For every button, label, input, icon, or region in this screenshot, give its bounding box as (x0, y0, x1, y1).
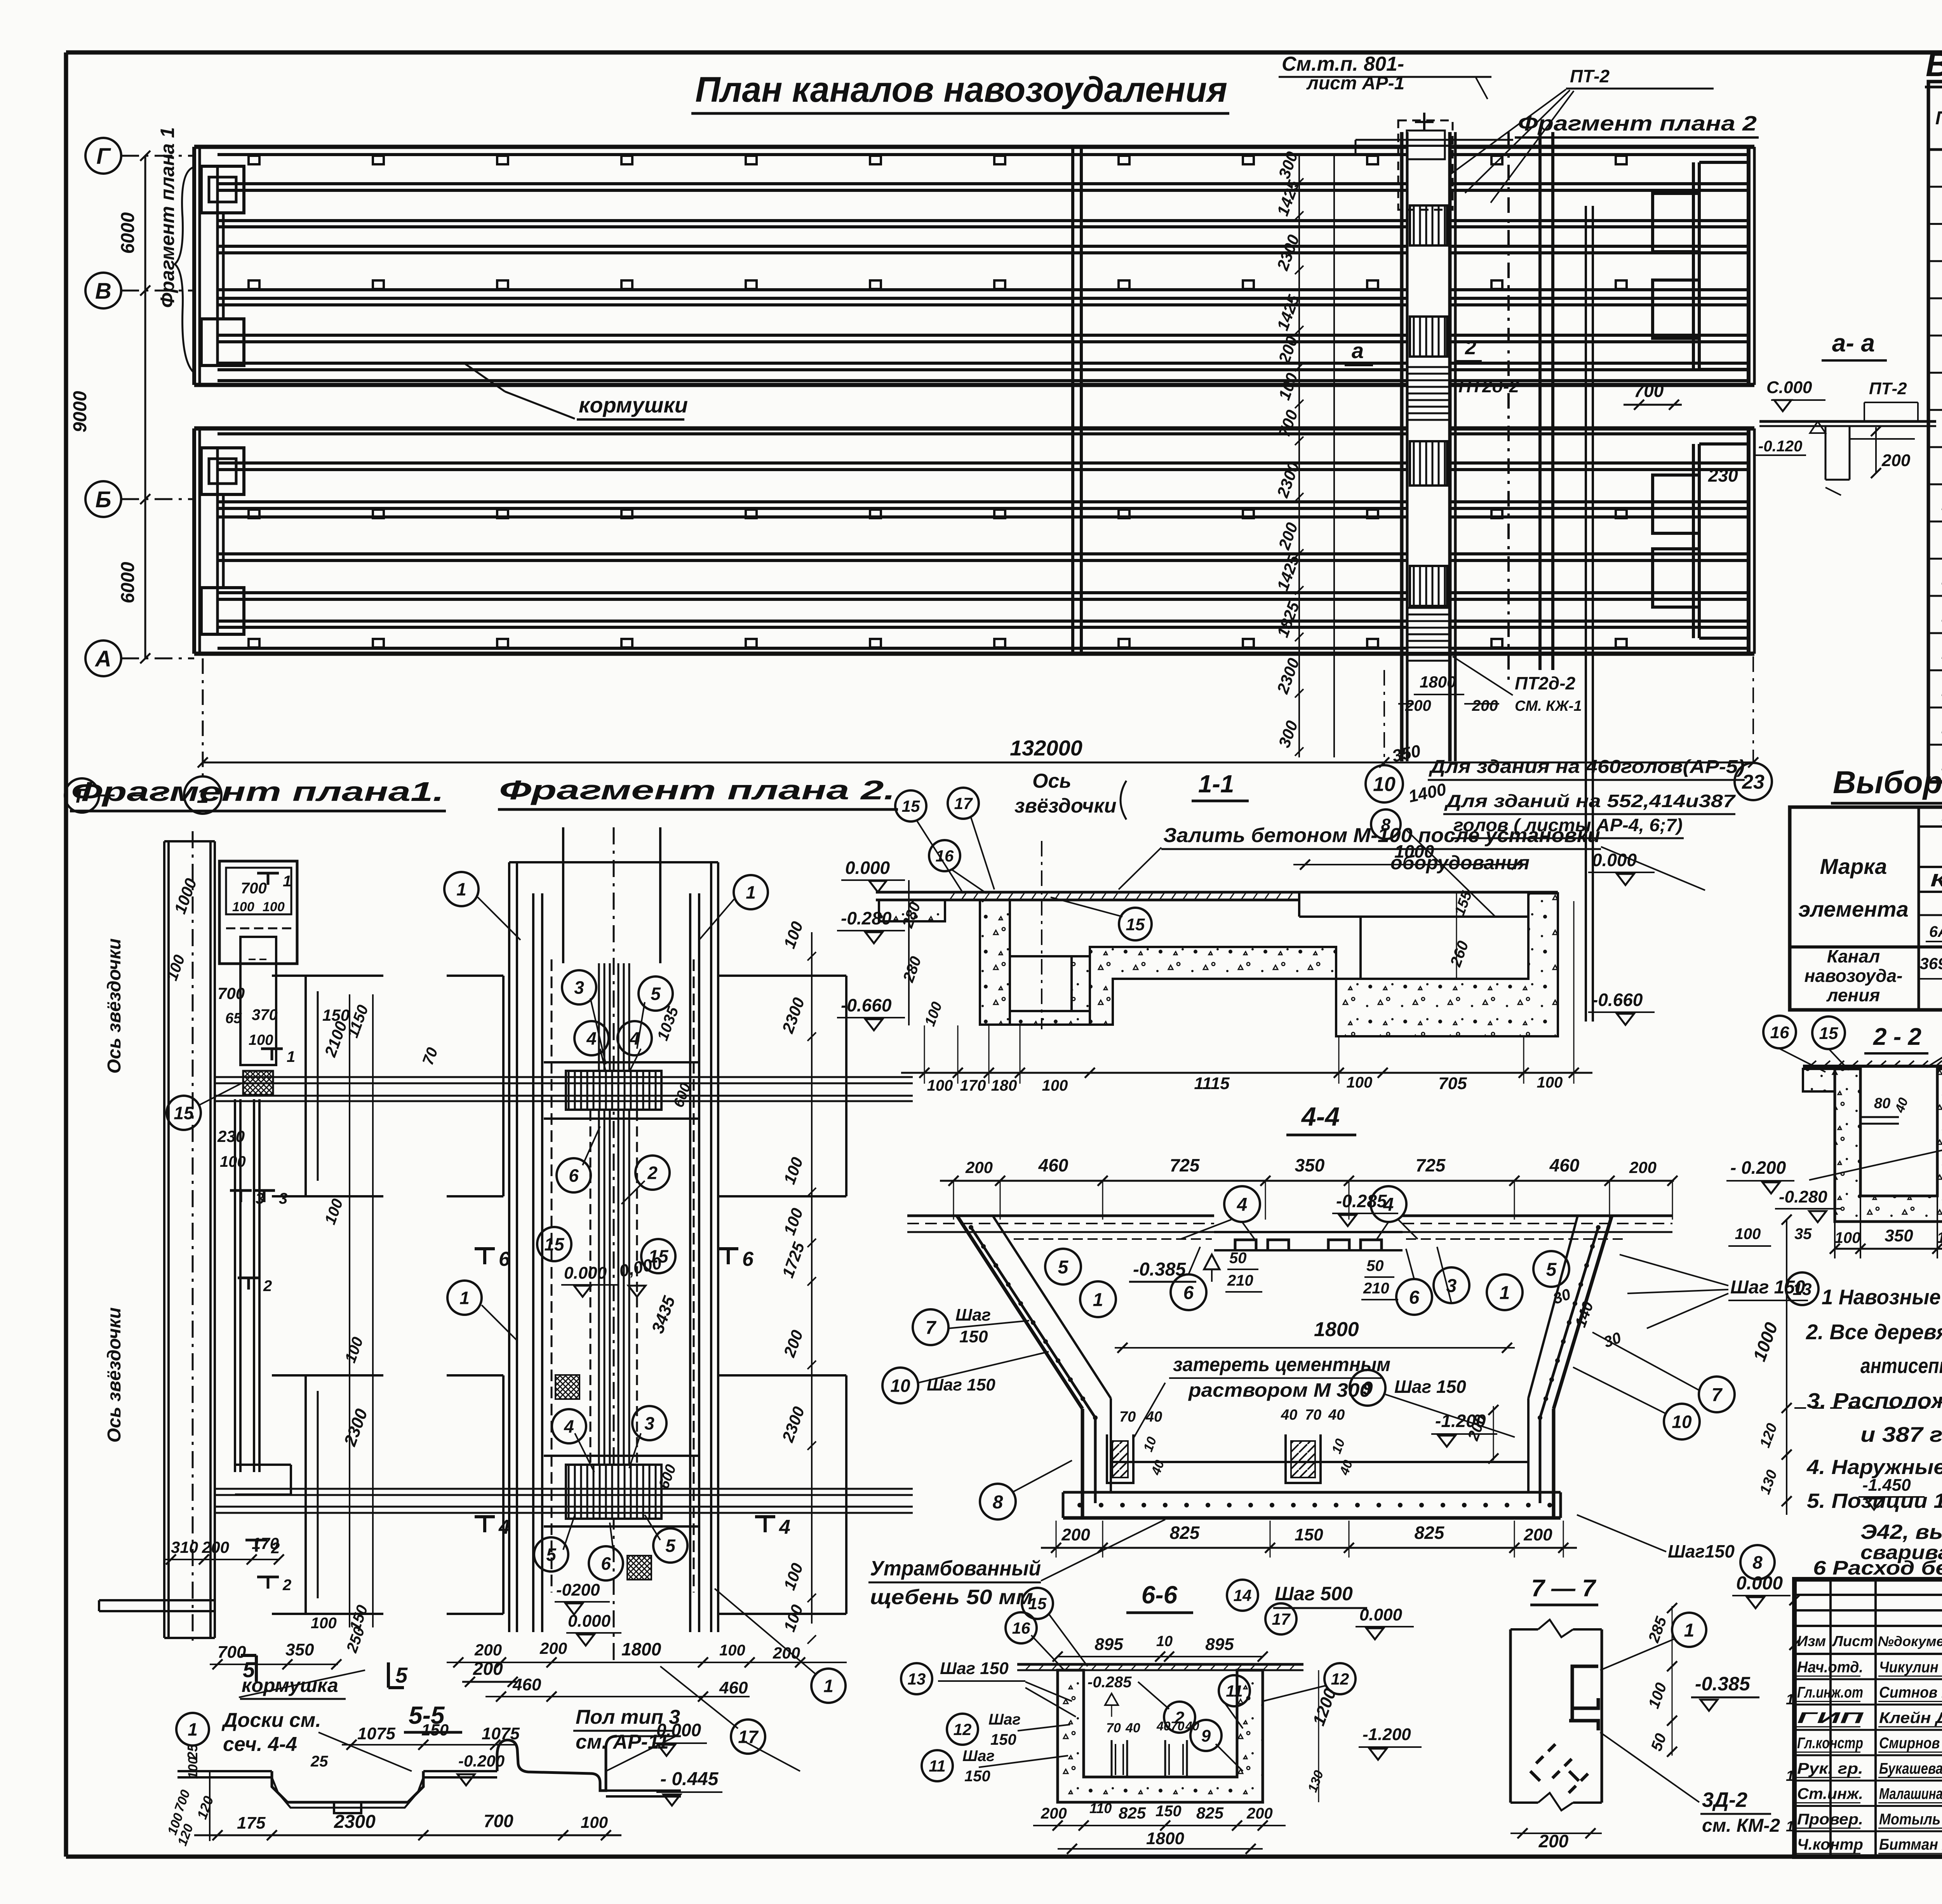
svg-text:См.т.п. 801-: См.т.п. 801- (1282, 53, 1404, 75)
svg-text:-0.660: -0.660 (1592, 990, 1643, 1010)
svg-text:700: 700 (484, 1811, 513, 1831)
svg-text:100: 100 (232, 900, 254, 914)
svg-text:Ст.инж.: Ст.инж. (1797, 1786, 1863, 1803)
svg-text:25: 25 (310, 1753, 328, 1770)
svg-text:Гл.констр: Гл.констр (1797, 1735, 1863, 1752)
svg-text:-1.450: -1.450 (1862, 1476, 1911, 1495)
svg-text:1 Навозные каналы выполня: 1 Навозные каналы выполняются из бетона … (1822, 1285, 1942, 1309)
svg-text:11: 11 (1226, 1682, 1243, 1700)
svg-text:150: 150 (959, 1327, 988, 1346)
svg-text:см. АР-11: см. АР-11 (576, 1731, 669, 1753)
svg-text:200: 200 (1629, 1158, 1657, 1177)
svg-text:13: 13 (1793, 1280, 1812, 1299)
svg-text:4: 4 (498, 1516, 510, 1539)
svg-text:100: 100 (927, 1077, 953, 1094)
svg-text:0.000: 0.000 (1736, 1573, 1783, 1594)
svg-text:1: 1 (1684, 1620, 1695, 1641)
svg-text:8: 8 (1752, 1552, 1763, 1573)
svg-text:70: 70 (1106, 1721, 1121, 1735)
svg-text:6: 6 (1183, 1283, 1194, 1303)
svg-text:Чикулин В.С.: Чикулин В.С. (1879, 1659, 1942, 1676)
svg-text:6: 6 (499, 1248, 510, 1270)
svg-text:Битман А.Л.: Битман А.Л. (1879, 1836, 1942, 1853)
svg-text:80: 80 (1874, 1095, 1890, 1112)
svg-text:а- а: а- а (1832, 329, 1875, 357)
svg-text:Фрагмент плана 1: Фрагмент плана 1 (157, 127, 178, 308)
svg-text:6: 6 (1409, 1287, 1420, 1308)
svg-text:-0.385: -0.385 (1133, 1259, 1186, 1280)
svg-text:100: 100 (1735, 1225, 1761, 1243)
svg-text:Канал: Канал (1827, 946, 1880, 966)
svg-text:-0.385: -0.385 (1695, 1673, 1751, 1695)
svg-text:100: 100 (263, 900, 285, 914)
svg-text:200: 200 (965, 1158, 993, 1177)
svg-text:Для здания на 460голов(АР-5): Для здания на 460голов(АР-5) (1428, 757, 1745, 777)
svg-text:2 - 2: 2 - 2 (1873, 1023, 1921, 1050)
svg-text:7: 7 (1712, 1385, 1723, 1405)
svg-text:150: 150 (421, 1721, 449, 1739)
svg-text:200: 200 (1523, 1525, 1552, 1544)
svg-text:Залить бетоном М-100 после ус: Залить бетоном М-100 после установки (1163, 824, 1600, 847)
svg-text:кормушки: кормушки (579, 393, 688, 417)
svg-text:40: 40 (1281, 1407, 1297, 1423)
svg-text:10: 10 (1156, 1633, 1173, 1650)
svg-text:350: 350 (1885, 1226, 1913, 1245)
svg-text:Шаг: Шаг (988, 1711, 1021, 1728)
svg-text:6000: 6000 (118, 212, 138, 254)
svg-text:Ось: Ось (1032, 770, 1071, 792)
svg-text:1: 1 (459, 1288, 470, 1308)
svg-text:-0.660: -0.660 (841, 995, 892, 1015)
svg-text:40: 40 (1125, 1721, 1140, 1735)
svg-text:1: 1 (287, 1048, 295, 1065)
svg-text:2300: 2300 (334, 1812, 376, 1832)
svg-text:Выборка стали на данный ли: Выборка стали на данный лист,кГ (1833, 765, 1942, 800)
svg-text:200: 200 (473, 1659, 503, 1679)
svg-text:3: 3 (574, 978, 584, 998)
svg-text:310: 310 (171, 1538, 198, 1556)
svg-text:370: 370 (252, 1006, 278, 1023)
svg-text:70: 70 (1305, 1407, 1321, 1423)
svg-text:см. КМ-2: см. КМ-2 (1702, 1815, 1780, 1836)
svg-text:0.000: 0.000 (564, 1264, 607, 1283)
svg-text:ления: ления (1826, 985, 1880, 1005)
svg-text:100: 100 (581, 1813, 608, 1831)
svg-text:1800: 1800 (621, 1639, 661, 1659)
svg-text:Ось звёздочки: Ось звёздочки (104, 1307, 125, 1443)
svg-text:200: 200 (474, 1641, 502, 1659)
svg-text:6: 6 (601, 1554, 611, 1574)
svg-text:15: 15 (1819, 1024, 1838, 1043)
svg-text:10: 10 (1672, 1412, 1692, 1432)
svg-text:1800: 1800 (1146, 1829, 1184, 1848)
svg-text:200: 200 (1061, 1525, 1090, 1544)
svg-text:100: 100 (1347, 1074, 1373, 1091)
svg-text:А: А (94, 646, 111, 672)
svg-text:100: 100 (1042, 1077, 1068, 1094)
svg-text:210: 210 (1363, 1280, 1389, 1297)
svg-text:Лист: Лист (1832, 1633, 1873, 1650)
svg-text:200: 200 (1405, 697, 1431, 714)
svg-text:ПТ-2: ПТ-2 (1869, 379, 1907, 398)
svg-text:16: 16 (1012, 1619, 1030, 1637)
svg-text:5: 5 (665, 1536, 676, 1556)
svg-text:Марка: Марка (1820, 854, 1887, 879)
svg-text:230: 230 (217, 1127, 245, 1145)
svg-text:200: 200 (202, 1538, 229, 1556)
svg-text:5: 5 (243, 1657, 255, 1682)
svg-text:825: 825 (1170, 1523, 1200, 1543)
svg-text:369.1: 369.1 (1919, 954, 1942, 973)
svg-text:5: 5 (1546, 1259, 1557, 1280)
svg-text:1: 1 (1786, 1819, 1794, 1835)
svg-text:350: 350 (1295, 1155, 1325, 1175)
svg-text:Малашина И.Н.: Малашина И.Н. (1879, 1786, 1942, 1803)
svg-text:725: 725 (1170, 1155, 1200, 1175)
svg-text:700: 700 (218, 984, 245, 1002)
svg-text:0.000: 0.000 (845, 858, 890, 878)
svg-text:Гл.инж.от: Гл.инж.от (1797, 1684, 1863, 1701)
svg-text:и 387 голов смотреть л: и 387 голов смотреть листы АР-5; 6; 7 и … (1860, 1422, 1942, 1446)
svg-text:Ось звёздочки: Ось звёздочки (104, 938, 125, 1074)
svg-text:2: 2 (282, 1577, 291, 1594)
svg-text:200: 200 (539, 1639, 567, 1657)
svg-text:1: 1 (1500, 1283, 1510, 1303)
svg-text:Букашева Г.Я.: Букашева Г.Я. (1879, 1760, 1942, 1777)
svg-text:16: 16 (1770, 1023, 1789, 1042)
svg-text:-0.120: -0.120 (1758, 438, 1802, 455)
svg-text:1: 1 (1786, 1692, 1794, 1708)
svg-text:15: 15 (544, 1234, 565, 1255)
svg-text:700: 700 (1634, 381, 1664, 401)
svg-text:3: 3 (644, 1413, 654, 1434)
svg-text:11: 11 (929, 1757, 946, 1775)
svg-text:200: 200 (1881, 451, 1911, 470)
svg-text:3Д-2: 3Д-2 (1702, 1788, 1747, 1812)
svg-text:2: 2 (1465, 336, 1476, 359)
svg-text:Э42, высоту швов принимат: Э42, высоту швов принимать по наименьшей… (1860, 1521, 1942, 1544)
svg-text:Класс АI: Класс АI (1930, 870, 1942, 890)
svg-text:Ситнов В.А.: Ситнов В.А. (1879, 1684, 1942, 1701)
svg-text:Шаг: Шаг (955, 1305, 991, 1324)
svg-text:-0.280: -0.280 (841, 908, 892, 928)
svg-text:150: 150 (1155, 1803, 1182, 1820)
svg-text:4: 4 (1237, 1194, 1248, 1215)
svg-text:2. Все деревянные элементы: 2. Все деревянные элементы, соприкасающи… (1806, 1320, 1942, 1344)
svg-text:звёздочки: звёздочки (1015, 795, 1116, 817)
svg-text:700: 700 (241, 880, 267, 897)
svg-text:170: 170 (252, 1534, 279, 1552)
svg-text:1800: 1800 (1420, 673, 1456, 691)
svg-text:Для зданий на 552,414и387: Для зданий на 552,414и387 (1444, 791, 1736, 811)
svg-text:сеч. 4-4: сеч. 4-4 (223, 1733, 297, 1756)
svg-text:Г: Г (76, 785, 89, 808)
svg-text:132000: 132000 (1010, 736, 1082, 760)
svg-text:6000: 6000 (118, 562, 138, 603)
svg-text:- 0.445: - 0.445 (660, 1769, 719, 1789)
svg-text:Смирнов Б.Н.: Смирнов Б.Н. (1879, 1735, 1942, 1752)
svg-text:10: 10 (1373, 773, 1396, 796)
svg-text:Нач.отд.: Нач.отд. (1797, 1659, 1863, 1676)
svg-text:10: 10 (890, 1376, 910, 1396)
svg-text:16: 16 (936, 847, 954, 865)
svg-text:100: 100 (1537, 1074, 1563, 1091)
svg-text:0.000: 0.000 (1592, 850, 1637, 870)
svg-text:2: 2 (1175, 1708, 1185, 1727)
svg-text:Клейн Д.С.: Клейн Д.С. (1879, 1709, 1942, 1726)
svg-text:5: 5 (1058, 1257, 1069, 1277)
svg-text:100: 100 (719, 1642, 745, 1659)
svg-text:ПТ-2: ПТ-2 (1570, 66, 1610, 86)
svg-text:9: 9 (1201, 1726, 1211, 1746)
svg-text:6: 6 (742, 1248, 754, 1270)
svg-text:150: 150 (1295, 1525, 1323, 1544)
svg-text:0.000: 0.000 (656, 1720, 701, 1740)
svg-text:1075: 1075 (357, 1724, 395, 1743)
svg-text:35: 35 (1794, 1225, 1812, 1243)
svg-text:ПТ2д-2: ПТ2д-2 (1458, 376, 1519, 396)
svg-text:План каналов навозоудаления: План каналов навозоудаления (695, 70, 1227, 110)
svg-text:ПТ2д-2: ПТ2д-2 (1515, 673, 1576, 693)
svg-text:Рук. гр.: Рук. гр. (1797, 1760, 1863, 1777)
svg-text:200: 200 (1246, 1805, 1273, 1822)
svg-text:5: 5 (651, 984, 661, 1004)
svg-text:-0.285: -0.285 (1088, 1674, 1132, 1691)
svg-text:Провер.: Провер. (1797, 1811, 1863, 1828)
svg-text:1800: 1800 (1314, 1318, 1359, 1341)
svg-text:Ведомость стали на данный: Ведомость стали на данный лист (1926, 45, 1942, 84)
svg-text:1: 1 (188, 1720, 198, 1740)
svg-text:1: 1 (456, 879, 466, 900)
svg-text:175: 175 (237, 1813, 266, 1833)
svg-text:Шаг 150: Шаг 150 (940, 1659, 1009, 1678)
svg-text:100: 100 (220, 1153, 246, 1170)
svg-text:-0.285: -0.285 (1336, 1191, 1387, 1211)
svg-text:200: 200 (1472, 697, 1498, 714)
svg-text:70: 70 (1119, 1409, 1136, 1425)
svg-text:100: 100 (186, 1757, 200, 1779)
svg-text:13: 13 (908, 1670, 926, 1688)
svg-text:4-4: 4-4 (1301, 1102, 1340, 1131)
svg-text:Фрагмент плана 2.: Фрагмент плана 2. (499, 775, 895, 805)
svg-text:65: 65 (225, 1010, 242, 1027)
svg-text:705: 705 (1438, 1074, 1467, 1093)
svg-text:а: а (1352, 338, 1364, 363)
svg-text:825: 825 (1415, 1523, 1445, 1543)
svg-text:17: 17 (954, 794, 973, 813)
svg-text:щебень 50 мм: щебень 50 мм (870, 1586, 1033, 1609)
svg-text:С.000: С.000 (1766, 378, 1812, 397)
svg-text:Шаг: Шаг (962, 1747, 995, 1765)
svg-text:12: 12 (1331, 1670, 1349, 1688)
svg-text:460: 460 (1549, 1155, 1580, 1175)
svg-text:1: 1 (823, 1676, 834, 1696)
svg-text:50: 50 (1229, 1250, 1247, 1267)
svg-text:1: 1 (283, 873, 291, 890)
svg-text:0.000: 0.000 (1359, 1605, 1403, 1624)
svg-text:17: 17 (1272, 1610, 1291, 1628)
svg-text:15: 15 (174, 1103, 194, 1123)
svg-text:Шаг 150: Шаг 150 (1394, 1377, 1466, 1397)
svg-text:725: 725 (1416, 1155, 1446, 1175)
svg-text:Шаг 500: Шаг 500 (1275, 1583, 1353, 1605)
svg-text:150: 150 (990, 1731, 1016, 1748)
svg-text:-1.200: -1.200 (1363, 1725, 1411, 1744)
svg-text:Ч.контр: Ч.контр (1797, 1836, 1863, 1853)
svg-text:5: 5 (546, 1545, 557, 1565)
svg-text:Фрагмент плана 2: Фрагмент плана 2 (1518, 112, 1757, 135)
svg-text:6АI: 6АI (1929, 923, 1942, 940)
svg-text:8: 8 (993, 1492, 1003, 1512)
svg-text:0.000: 0.000 (568, 1612, 611, 1631)
svg-text:180: 180 (991, 1077, 1017, 1094)
svg-text:210: 210 (1227, 1272, 1253, 1289)
svg-text:-0.200: -0.200 (458, 1752, 505, 1770)
svg-text:230: 230 (1708, 465, 1738, 486)
svg-text:антисептируются.: антисептируются. (1860, 1354, 1942, 1378)
svg-text:3. Расположение навозных к: 3. Расположение навозных каналов для зда… (1807, 1389, 1942, 1413)
svg-text:170: 170 (960, 1077, 986, 1094)
svg-text:100: 100 (249, 1032, 273, 1048)
svg-text:7 — 7: 7 — 7 (1531, 1575, 1596, 1602)
svg-text:110: 110 (1089, 1800, 1112, 1816)
svg-text:№документа: №документа (1878, 1633, 1942, 1649)
svg-text:40: 40 (1145, 1409, 1162, 1425)
svg-text:9: 9 (1363, 1378, 1373, 1399)
svg-text:895: 895 (1095, 1635, 1123, 1654)
svg-text:40: 40 (1328, 1407, 1345, 1423)
svg-text:Доски см.: Доски см. (221, 1709, 321, 1732)
svg-text:1-1: 1-1 (1198, 770, 1234, 798)
svg-text:4: 4 (779, 1516, 790, 1539)
svg-text:895: 895 (1205, 1635, 1234, 1654)
svg-text:15: 15 (902, 797, 920, 815)
svg-text:Шаг150: Шаг150 (1668, 1541, 1735, 1561)
svg-text:Изм: Изм (1797, 1633, 1826, 1650)
svg-text:В: В (95, 278, 111, 304)
svg-text:Мотыль К.Л.: Мотыль К.Л. (1879, 1811, 1942, 1828)
svg-text:-0200: -0200 (556, 1580, 600, 1599)
svg-text:7: 7 (926, 1317, 937, 1338)
svg-text:6: 6 (569, 1166, 579, 1186)
svg-text:460: 460 (1038, 1155, 1068, 1175)
svg-text:460: 460 (719, 1678, 748, 1697)
svg-text:2: 2 (647, 1163, 658, 1183)
svg-text:825: 825 (1119, 1804, 1146, 1822)
svg-text:Фрагмент плана1.: Фрагмент плана1. (71, 776, 444, 807)
svg-text:1: 1 (746, 882, 756, 903)
svg-text:9000: 9000 (70, 391, 90, 432)
svg-text:23: 23 (1742, 771, 1765, 794)
svg-text:50: 50 (1366, 1257, 1384, 1274)
svg-text:4: 4 (564, 1417, 574, 1437)
svg-text:6 Расход бетона на канал: 6 Расход бетона на канал навозоудаления … (1813, 1557, 1942, 1579)
svg-text:15: 15 (1028, 1594, 1047, 1613)
svg-text:-0.280: -0.280 (1779, 1187, 1827, 1206)
svg-text:350: 350 (285, 1640, 314, 1659)
svg-text:Поз: Поз (1935, 108, 1942, 129)
svg-text:1: 1 (1786, 1768, 1794, 1784)
svg-text:6-6: 6-6 (1142, 1581, 1178, 1609)
svg-text:Утрамбованный: Утрамбованный (870, 1557, 1041, 1580)
svg-text:14: 14 (1234, 1586, 1252, 1605)
svg-text:2: 2 (263, 1277, 272, 1295)
svg-text:Б: Б (95, 487, 111, 512)
svg-text:ГИП: ГИП (1797, 1709, 1864, 1726)
svg-text:5: 5 (395, 1663, 408, 1687)
svg-text:СМ. КЖ-1: СМ. КЖ-1 (1515, 698, 1582, 714)
svg-text:200: 200 (1041, 1805, 1067, 1822)
svg-text:12: 12 (954, 1720, 972, 1739)
svg-text:1115: 1115 (1194, 1074, 1230, 1093)
svg-text:4: 4 (586, 1029, 597, 1049)
svg-text:раствором М 300: раствором М 300 (1188, 1379, 1371, 1401)
svg-text:1: 1 (1093, 1290, 1103, 1310)
svg-text:200: 200 (773, 1644, 800, 1662)
svg-text:Г: Г (96, 144, 111, 169)
svg-text:150: 150 (964, 1768, 990, 1785)
svg-text:3: 3 (279, 1190, 287, 1207)
svg-text:100: 100 (311, 1615, 337, 1632)
svg-text:элемента: элемента (1798, 897, 1908, 921)
svg-text:навозоуда-: навозоуда- (1805, 966, 1903, 986)
svg-text:- 0.200: - 0.200 (1730, 1157, 1786, 1178)
svg-text:825: 825 (1196, 1804, 1224, 1822)
svg-text:100: 100 (1835, 1229, 1861, 1246)
svg-text:15: 15 (1126, 915, 1145, 934)
